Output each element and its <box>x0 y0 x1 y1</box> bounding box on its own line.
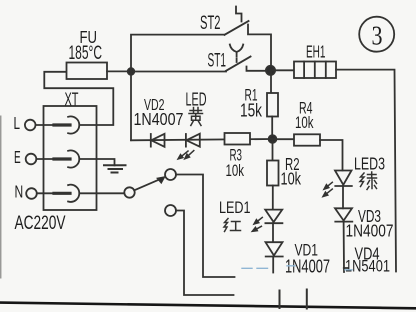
label R1 <box>245 86 258 105</box>
resistor R1 body <box>267 93 278 117</box>
label 1N4007 VD2 <box>134 109 184 129</box>
label LED1 <box>219 198 251 217</box>
wire: VD2 branch horizontal <box>131 139 273 140</box>
svg-text:L: L <box>14 113 21 133</box>
svg-text:AC220V: AC220V <box>15 213 66 234</box>
diode VD3 <box>335 208 352 221</box>
scan page left edge line <box>0 116 2 278</box>
LED1 emission arrows <box>252 217 262 231</box>
label EH1 <box>306 42 326 62</box>
label L <box>14 113 21 133</box>
wire: VD3 down <box>344 222 348 272</box>
label AC220V <box>15 213 66 234</box>
switch ST1 blade <box>226 57 251 71</box>
svg-text:E: E <box>14 147 21 167</box>
label VD3 <box>358 206 381 226</box>
label yellow hanzi <box>189 108 203 126</box>
label VD2 <box>144 97 165 114</box>
fuse FU body <box>67 63 108 80</box>
svg-text:3: 3 <box>372 21 383 51</box>
wire: node A right to ST1 <box>131 71 226 73</box>
resistor R3 body <box>225 133 251 145</box>
terminal block XT box <box>44 106 97 210</box>
label R2 <box>285 154 300 174</box>
terminal N circle <box>26 188 37 199</box>
svg-text:LED3: LED3 <box>354 154 385 174</box>
LED yellow emission arrows <box>178 151 194 160</box>
terminal E circle <box>26 154 37 165</box>
wire: node B to EH1 <box>271 69 295 71</box>
svg-text:LED: LED <box>186 89 207 110</box>
selector pole circle <box>124 187 134 197</box>
svg-text:1N5401: 1N5401 <box>345 257 390 276</box>
wire: bottom contact to bottom left L route <box>176 211 234 296</box>
svg-text:15k: 15k <box>240 101 263 121</box>
heater EH1 body with 4 cells <box>294 62 336 79</box>
wire: VD1 down stub <box>272 257 274 273</box>
label XT <box>65 90 79 110</box>
bottom connection stub right <box>306 290 308 309</box>
label 185°C <box>69 43 103 64</box>
svg-text:185°C: 185°C <box>69 43 103 64</box>
node A junction dot <box>128 68 135 75</box>
svg-text:10k: 10k <box>281 169 302 189</box>
label 1N5401 <box>345 257 390 276</box>
switch ST1 contact tick and output wire <box>247 67 267 71</box>
selector blade with arrow <box>134 177 165 191</box>
label R4 <box>299 99 313 118</box>
switch ST2 push actuator <box>236 7 242 22</box>
wire: N to selector pole <box>80 192 125 194</box>
wire: R4 to LED3 branch <box>320 140 343 170</box>
switch ST1 thermal actuator <box>230 45 243 63</box>
svg-text:ST2: ST2 <box>200 13 221 34</box>
wire: top contact to bottom left L route <box>176 175 235 278</box>
label 10k R4 <box>295 113 314 132</box>
wire: R2 to LED1 <box>272 186 274 210</box>
bottom connection stub left <box>279 291 281 309</box>
label R3 <box>230 146 243 165</box>
label 10k R2 <box>281 169 302 189</box>
label 3 <box>372 21 383 51</box>
label VD4 <box>355 244 380 264</box>
label 15k <box>240 101 263 121</box>
LED yellow diode symbol <box>186 134 200 147</box>
resistor R4 body <box>294 134 320 145</box>
bottom border line <box>0 303 416 309</box>
wire: node A up and right to ST2 <box>131 35 225 72</box>
diode VD2 <box>151 134 165 147</box>
figure number circle 3 <box>359 17 394 52</box>
label 1N4007 VD1 <box>285 257 330 277</box>
LED LED1 symbol <box>265 210 282 224</box>
label LED3 <box>354 154 385 174</box>
label ST1 <box>208 51 227 72</box>
connector N: wire pin and socket arc <box>37 185 79 202</box>
svg-text:1N4007: 1N4007 <box>346 221 394 241</box>
wire: node C down to R2 <box>272 139 274 161</box>
label LED <box>186 89 207 110</box>
label E <box>14 147 21 167</box>
diode VD1 <box>266 242 283 256</box>
node C junction dot <box>269 135 277 143</box>
wire: EH1 right side down the far right <box>336 70 396 272</box>
wire: node B down to R1 <box>270 70 272 93</box>
svg-text:EH1: EH1 <box>306 42 326 62</box>
label red hanzi <box>224 219 241 232</box>
selector top contact circle <box>165 169 176 180</box>
switch ST2 contact and output wire <box>248 25 271 67</box>
wire: LED3 to VD3 <box>342 186 344 208</box>
wire: L terminal to fuse step routing <box>44 72 113 125</box>
svg-text:10k: 10k <box>226 161 245 180</box>
wire: E to ground <box>80 159 115 165</box>
wire: fuse to node A <box>107 70 131 72</box>
ground symbol <box>104 165 126 172</box>
label 10k R3 <box>226 161 245 180</box>
connector L: wire pin and socket arc <box>36 116 79 133</box>
label VD1 <box>295 241 319 260</box>
switch ST2 blade <box>225 21 249 35</box>
label ST2 <box>200 13 221 34</box>
svg-text:10k: 10k <box>295 113 314 132</box>
svg-text:N: N <box>15 182 24 202</box>
svg-text:ST1: ST1 <box>208 51 227 72</box>
svg-text:1N4007: 1N4007 <box>134 109 184 129</box>
LED3 emission arrows <box>323 182 333 197</box>
wire: LED1 to VD1 <box>272 223 274 242</box>
connector E: wire pin and socket arc <box>37 150 79 167</box>
wire: node C to R4 <box>273 138 295 140</box>
label N <box>15 182 24 202</box>
selector bottom contact circle <box>165 205 176 216</box>
LED LED3 symbol <box>335 171 352 187</box>
svg-text:LED1: LED1 <box>219 198 251 217</box>
label green hanzi <box>360 172 377 190</box>
label FU <box>80 27 98 47</box>
resistor R2 body <box>267 161 279 186</box>
wire: R1 to node C <box>271 117 273 140</box>
node B junction dot <box>266 66 275 75</box>
label 1N4007 VD3 <box>346 221 394 241</box>
svg-text:XT: XT <box>65 90 79 110</box>
blue scan marks <box>242 266 352 270</box>
wire: node A down to VD2 branch <box>130 72 132 141</box>
terminal L circle <box>25 120 36 131</box>
